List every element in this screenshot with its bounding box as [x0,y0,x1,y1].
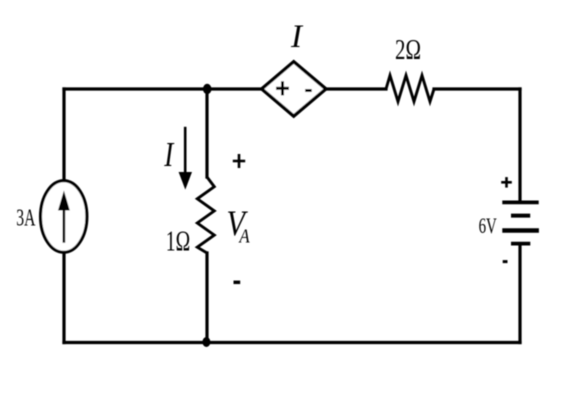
svg-text:1Ω: 1Ω [166,227,190,258]
svg-text:A: A [238,225,251,247]
svg-text:I: I [290,19,304,55]
svg-text:2Ω: 2Ω [395,34,421,66]
svg-text:6V: 6V [479,213,497,238]
svg-text:3A: 3A [16,205,36,231]
svg-text:I: I [163,135,174,174]
